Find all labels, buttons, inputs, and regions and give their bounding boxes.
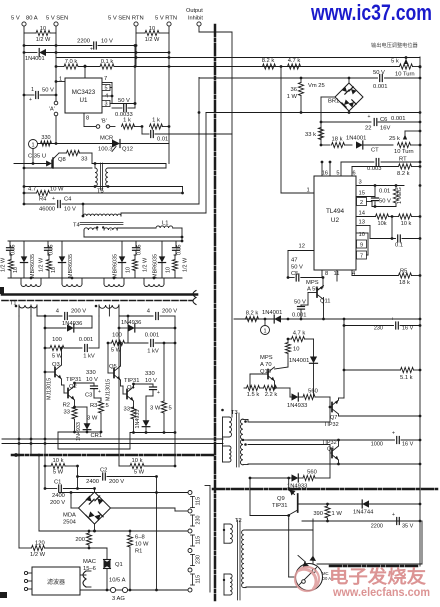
svg-text:50 V: 50 V	[373, 70, 385, 76]
svg-text:0.001: 0.001	[145, 333, 160, 339]
filter box	[32, 567, 80, 595]
wire y439	[2, 438, 223, 440]
svg-text:12: 12	[299, 244, 305, 250]
svg-text:1/2 W: 1/2 W	[143, 257, 149, 272]
svg-text:5: 5	[169, 406, 172, 412]
svg-text:1 kV: 1 kV	[83, 354, 95, 360]
watermark elecfans text	[329, 566, 430, 599]
svg-text:8: 8	[86, 116, 89, 122]
resistor 33k	[305, 128, 324, 140]
svg-text:1N4936: 1N4936	[121, 320, 141, 326]
wire y319	[234, 318, 420, 321]
pin box 9	[357, 240, 367, 249]
wire y186	[23, 185, 183, 193]
svg-text:C4: C4	[64, 197, 72, 203]
svg-text:5.1 k: 5.1 k	[400, 375, 413, 381]
wire y112	[206, 111, 420, 114]
svg-text:1 W: 1 W	[332, 511, 343, 517]
node 5V RTN terminal	[155, 16, 177, 27]
capacitor 2200 35V	[371, 512, 414, 530]
svg-text:2.2 k: 2.2 k	[265, 392, 278, 398]
svg-text:0.1: 0.1	[395, 243, 403, 249]
svg-text:5: 5	[336, 171, 339, 177]
node 5V SEN RTN terminal	[108, 16, 144, 27]
resistor 5.1k	[344, 367, 421, 381]
svg-text:200 V: 200 V	[109, 479, 124, 485]
diode 1N4936 a	[45, 321, 92, 332]
svg-text:C3: C3	[85, 393, 92, 399]
boundary chain y455	[12, 453, 215, 457]
diode 1N4001 down	[289, 339, 318, 397]
svg-text:+: +	[392, 512, 395, 518]
svg-text:8.2 k: 8.2 k	[397, 171, 410, 177]
wire rail y278	[8, 277, 182, 279]
pin box 2	[357, 198, 397, 207]
svg-text:230: 230	[374, 326, 383, 332]
svg-text:1: 1	[263, 329, 266, 335]
rectifier bridge BR1	[308, 78, 363, 113]
transformer T1 secondary a	[15, 305, 37, 316]
svg-text:+: +	[157, 390, 160, 396]
resistor RT 8.2k	[352, 157, 420, 178]
thyristor Q12 MCR100-3	[37, 136, 169, 153]
wire inhibit bus	[231, 32, 233, 417]
wire pin4	[352, 270, 398, 277]
node A jumper	[49, 99, 58, 144]
wire t3 q6 base	[248, 445, 330, 479]
svg-text:10 V: 10 V	[145, 378, 157, 384]
op-amp U2 TL494	[314, 176, 356, 270]
wire q9 collector drop	[289, 576, 296, 578]
pin box 5	[102, 83, 112, 104]
transformer T1 primary windings	[21, 277, 164, 287]
resistor 200	[75, 531, 91, 548]
wire y462	[248, 463, 421, 466]
svg-text:CT: CT	[371, 148, 379, 154]
wire x199	[198, 78, 201, 205]
svg-text:+: +	[368, 114, 371, 120]
svg-text:10k: 10k	[377, 221, 386, 227]
wire t3 q7	[248, 421, 330, 423]
svg-text:MJ13015: MJ13015	[47, 378, 53, 400]
svg-text:35 V: 35 V	[402, 524, 414, 530]
op-amp U1 MC3423	[65, 78, 102, 113]
wire right bus	[419, 57, 422, 566]
pin box 3	[102, 101, 112, 108]
svg-text:0.05: 0.05	[177, 245, 183, 256]
wire y213	[121, 113, 206, 214]
svg-text:33: 33	[124, 407, 130, 413]
svg-text:TIP31: TIP31	[124, 378, 139, 384]
svg-text:+: +	[392, 431, 395, 437]
svg-text:560: 560	[307, 470, 317, 476]
node B jumper	[96, 119, 110, 129]
transistor Q2 TIP31	[62, 377, 82, 407]
svg-text:5: 5	[104, 86, 107, 92]
svg-text:1/2 W: 1/2 W	[30, 552, 46, 558]
svg-text:MPS: MPS	[260, 355, 273, 361]
transformer T5	[94, 162, 108, 194]
svg-text:10 V: 10 V	[64, 207, 76, 213]
svg-text:3: 3	[359, 180, 362, 186]
svg-text:1N4001: 1N4001	[289, 358, 309, 364]
wire x281 pin1 feed	[280, 67, 282, 194]
svg-text:10: 10	[293, 347, 299, 353]
watermark ic37	[310, 0, 432, 25]
svg-text:7: 7	[104, 76, 107, 82]
svg-text:0.05: 0.05	[49, 245, 55, 256]
svg-text:100: 100	[52, 337, 62, 343]
diode 1N4936 b	[119, 320, 175, 332]
svg-text:TIP32: TIP32	[324, 422, 339, 428]
wire t3 taps	[247, 421, 249, 423]
svg-text:Q12: Q12	[122, 147, 133, 153]
svg-text:Q9: Q9	[277, 496, 285, 502]
wire pin14	[356, 211, 376, 217]
capacitor 2200 10V	[23, 39, 138, 53]
svg-text:22: 22	[365, 126, 371, 132]
svg-text:Q11: Q11	[320, 299, 331, 305]
svg-text:'A': 'A'	[49, 107, 55, 113]
svg-text:200 V: 200 V	[162, 309, 177, 315]
svg-text:0.01: 0.01	[379, 189, 390, 195]
wire U1 pin1	[55, 77, 65, 83]
svg-text:+: +	[90, 47, 93, 53]
svg-text:0.05: 0.05	[11, 245, 17, 256]
wire pin11	[334, 270, 340, 281]
svg-text:T5: T5	[97, 189, 104, 195]
svg-text:5 W: 5 W	[134, 470, 145, 476]
svg-text:1 W: 1 W	[287, 94, 298, 100]
svg-text:R1: R1	[135, 549, 142, 555]
terminal 230 b	[188, 549, 202, 566]
svg-text:14: 14	[359, 211, 366, 217]
svg-text:50 V: 50 V	[118, 98, 130, 104]
pin box 7	[357, 251, 369, 260]
svg-text:10: 10	[126, 267, 132, 273]
resistor 5 3W b	[150, 342, 172, 434]
wire pin10	[356, 232, 368, 255]
svg-text:1000: 1000	[371, 442, 383, 448]
wire t1 leg a2	[18, 454, 20, 456]
wire x344	[343, 319, 346, 398]
svg-text:46000: 46000	[39, 207, 55, 213]
wire y168 right	[108, 167, 166, 169]
svg-text:16 V: 16 V	[402, 442, 414, 448]
wire pin6	[352, 167, 356, 177]
svg-text:+: +	[98, 389, 101, 395]
svg-text:1N4933: 1N4933	[287, 403, 307, 409]
terminal 230 a	[188, 509, 202, 526]
resistor R3 5 3W	[87, 398, 109, 433]
node 5V 80A terminal	[11, 16, 38, 27]
resistor 560 q6	[303, 470, 330, 481]
potentiometer 25k 10-Turn	[389, 131, 420, 155]
diode branch MBR6035 2	[39, 241, 75, 278]
svg-text:+: +	[52, 196, 55, 202]
svg-text:36: 36	[291, 87, 297, 93]
svg-text:230: 230	[196, 516, 202, 525]
wire pin15	[356, 191, 375, 197]
svg-text:13: 13	[359, 220, 365, 226]
svg-text:10 W: 10 W	[50, 187, 64, 193]
svg-text:33 k: 33 k	[305, 132, 316, 138]
resistor 8.2k mid	[246, 311, 259, 322]
wire y163	[92, 164, 166, 169]
capacitor C6 22 16V	[321, 114, 420, 132]
svg-text:C1: C1	[54, 480, 61, 486]
boundary secondary box	[205, 486, 210, 593]
svg-text:50 V: 50 V	[42, 88, 54, 94]
svg-text:MCR: MCR	[100, 136, 113, 142]
terminal f2	[24, 579, 32, 582]
capacitor 0.01 50V pin15	[372, 186, 392, 208]
svg-text:3 AG: 3 AG	[112, 596, 125, 602]
svg-text:1/2 W: 1/2 W	[36, 37, 51, 43]
transformer T1 core	[2, 295, 197, 307]
svg-text:C 35 U: C 35 U	[28, 154, 46, 160]
inductor L1	[117, 221, 182, 242]
svg-text:MBR6035: MBR6035	[113, 254, 119, 278]
svg-text:10 W: 10 W	[135, 542, 149, 548]
svg-text:R4: R4	[39, 197, 47, 203]
resistor 10k b	[389, 214, 421, 227]
svg-text:TIP32: TIP32	[322, 440, 337, 446]
svg-text:2: 2	[360, 200, 363, 206]
svg-text:1N4936: 1N4936	[62, 321, 82, 327]
wire pin5	[336, 162, 341, 177]
svg-text:0.01: 0.01	[157, 137, 168, 143]
wire pin13	[356, 220, 370, 239]
svg-text:10 Turn: 10 Turn	[394, 149, 414, 155]
svg-text:16V: 16V	[380, 126, 390, 132]
wire t1 legs	[18, 316, 121, 466]
resistor 100 5W b	[108, 333, 148, 354]
svg-text:115: 115	[196, 497, 202, 506]
transistor Q10 MPS A70	[250, 355, 288, 389]
wire opto out	[317, 521, 422, 564]
resistor 36 1W	[287, 78, 304, 113]
svg-text:Q6: Q6	[327, 447, 334, 453]
svg-text:7.0 k: 7.0 k	[65, 59, 78, 65]
wire y237	[84, 236, 183, 239]
wire t2 box	[244, 519, 313, 588]
transistor Q4 TIP31	[121, 378, 140, 408]
svg-text:RT: RT	[399, 157, 407, 163]
svg-text:0.001: 0.001	[79, 337, 94, 343]
svg-text:R3: R3	[90, 403, 97, 409]
capacitor 0.1	[370, 217, 420, 249]
capacitor 0.001 50V fb	[199, 70, 420, 90]
resistor 560 q7	[303, 389, 330, 423]
resistor 390 1W	[313, 504, 342, 522]
svg-text:560: 560	[308, 389, 318, 395]
wire x156	[156, 477, 158, 591]
svg-text:200 V: 200 V	[50, 500, 65, 506]
svg-text:80 A: 80 A	[26, 16, 38, 22]
svg-text:Q7: Q7	[330, 415, 337, 421]
diode CR1 1N4933	[75, 407, 103, 441]
wire U1 pin4	[102, 94, 113, 100]
svg-text:1 k: 1 k	[152, 118, 160, 124]
svg-text:1N4001: 1N4001	[25, 56, 45, 62]
svg-text:TL494: TL494	[326, 208, 345, 215]
svg-text:+: +	[29, 97, 32, 103]
resistor 2.2k	[260, 385, 291, 398]
svg-text:MAC: MAC	[83, 559, 96, 565]
svg-text:50 V: 50 V	[379, 199, 391, 205]
svg-text:330: 330	[86, 370, 96, 376]
label pot chinese	[371, 41, 419, 49]
resistor 0.1k	[100, 59, 169, 69]
svg-text:5 V RTN: 5 V RTN	[155, 16, 177, 22]
transformer T4	[73, 204, 123, 229]
resistor 10k 5W a	[45, 458, 78, 476]
svg-text:115: 115	[196, 536, 202, 545]
svg-text:10 V: 10 V	[86, 377, 98, 383]
svg-text:16 V: 16 V	[402, 326, 414, 332]
resistor R2 33	[63, 403, 78, 434]
svg-text:10: 10	[13, 267, 19, 273]
wire pin1	[281, 188, 314, 194]
core ground	[193, 291, 196, 305]
svg-text:25 k: 25 k	[389, 136, 400, 142]
svg-text:1N4933: 1N4933	[135, 410, 141, 429]
resistor 8.2k top	[262, 58, 276, 69]
resistor 4.7k mid	[287, 331, 314, 342]
svg-text:1 kV: 1 kV	[147, 349, 159, 355]
diode branch MBR6035 4	[153, 241, 189, 278]
resistor 330	[41, 135, 52, 146]
svg-text:7: 7	[360, 254, 363, 260]
wire x135	[134, 44, 137, 108]
node circle-1 left	[28, 140, 46, 164]
svg-text:MPS: MPS	[306, 280, 319, 286]
wire q9 to box	[288, 518, 290, 520]
svg-text:15: 15	[359, 191, 365, 197]
node circle-1 right	[261, 319, 270, 335]
svg-text:Inhibit: Inhibit	[188, 16, 203, 22]
svg-text:6–8: 6–8	[135, 535, 145, 541]
capacitor 0.001 50V q11	[292, 300, 325, 321]
svg-text:16: 16	[322, 171, 328, 177]
svg-text:U2: U2	[331, 217, 340, 224]
capacitor 0.0033 50V	[112, 98, 135, 118]
svg-text:10/5 A: 10/5 A	[109, 578, 126, 584]
svg-text:18 k: 18 k	[332, 137, 343, 143]
svg-text:1: 1	[31, 143, 34, 149]
wire t3 left	[222, 417, 224, 462]
wire y57	[56, 56, 420, 59]
svg-text:100: 100	[112, 333, 122, 339]
terminal f1	[24, 571, 32, 574]
wire box a	[58, 432, 130, 449]
svg-text:0.001: 0.001	[373, 84, 388, 90]
svg-text:47: 47	[291, 258, 297, 264]
diode 1N4001 b	[346, 136, 393, 150]
svg-text:1/2 W: 1/2 W	[1, 257, 7, 272]
svg-text:1 k: 1 k	[123, 118, 131, 124]
node Output Inhibit terminal	[186, 8, 203, 26]
capacitor 1000 16V	[248, 431, 421, 448]
svg-text:2200: 2200	[77, 39, 90, 45]
svg-text:MJ13015: MJ13015	[106, 379, 112, 401]
svg-text:1: 1	[31, 87, 34, 93]
fuse 10/5A 3AG	[80, 578, 188, 603]
svg-text:5 V SEN: 5 V SEN	[46, 16, 68, 22]
svg-text:MBR6035: MBR6035	[68, 254, 74, 278]
wire pin8	[322, 270, 328, 278]
svg-text:1N4001: 1N4001	[262, 310, 282, 316]
svg-text:10 k: 10 k	[53, 458, 64, 464]
svg-text:输出电压调整电位器: 输出电压调整电位器	[371, 41, 419, 49]
capacitor 0.001 1kV a	[79, 337, 99, 360]
svg-text:5 V: 5 V	[11, 16, 20, 22]
svg-text:10 Turn: 10 Turn	[395, 72, 415, 78]
svg-text:10: 10	[51, 267, 57, 273]
svg-text:MBR6035: MBR6035	[153, 254, 159, 278]
wire t3 right bot	[243, 463, 248, 466]
svg-text:Q5: Q5	[109, 364, 117, 370]
capacitor C3 330 10V	[75, 370, 102, 399]
wire y443	[2, 443, 223, 445]
svg-text:www.ic37.com: www.ic37.com	[310, 0, 432, 25]
rectifier bridge MDA2504	[63, 487, 111, 532]
svg-text:3 W: 3 W	[150, 406, 161, 412]
terminal f3	[24, 587, 32, 590]
wire mda right	[111, 508, 189, 511]
svg-text:C2: C2	[100, 468, 107, 474]
svg-text:1 MEG: 1 MEG	[397, 187, 403, 204]
svg-text:10: 10	[40, 26, 46, 32]
svg-text:0.05: 0.05	[137, 245, 143, 256]
terminal 115 a	[188, 491, 202, 508]
resistor 10k 5W b	[119, 458, 176, 476]
svg-text:C6: C6	[380, 117, 387, 123]
svg-text:330: 330	[145, 371, 155, 377]
svg-text:11: 11	[334, 271, 340, 277]
svg-text:2200: 2200	[371, 524, 383, 530]
wire t3 right top	[243, 420, 248, 423]
svg-text:Q1: Q1	[115, 562, 123, 568]
svg-text:100.3: 100.3	[98, 147, 113, 153]
boundary chain y566	[330, 565, 420, 568]
diode 1N4001 left mid	[262, 310, 282, 323]
svg-text:1/2 W: 1/2 W	[145, 37, 160, 43]
boundary chain vertical	[214, 25, 217, 600]
optocoupler U3	[296, 556, 332, 591]
wire U1 pin7	[102, 76, 112, 83]
capacitor 0.01 mid	[142, 127, 232, 143]
svg-text:A 70: A 70	[260, 362, 272, 368]
capacitor 0.001 1kV b	[145, 333, 175, 355]
transistor Q3 MJ13015	[45, 347, 63, 400]
svg-text:Q8: Q8	[58, 157, 66, 163]
svg-text:2400: 2400	[86, 479, 99, 485]
transistor Q7 TIP32	[324, 398, 421, 428]
svg-text:TIP31: TIP31	[272, 503, 287, 509]
transistor Q8	[14, 153, 66, 168]
svg-text:T4: T4	[73, 223, 81, 229]
wire U1 top	[84, 65, 87, 78]
wire U1 pin8	[84, 113, 96, 127]
svg-text:5 V SEN RTN: 5 V SEN RTN	[108, 16, 144, 22]
svg-text:0.1 k: 0.1 k	[101, 59, 114, 65]
wire y521	[302, 520, 421, 523]
transistor Q5 MJ13015	[106, 342, 122, 401]
watermark elecfans logo	[295, 567, 319, 591]
wire rail y241	[8, 240, 183, 243]
